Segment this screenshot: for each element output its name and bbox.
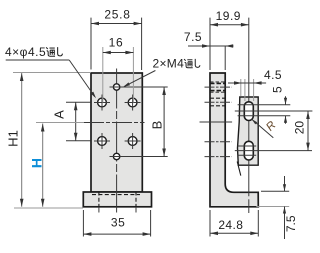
dimension H line <box>41 124 45 207</box>
svg-text:A: A <box>52 110 67 119</box>
through hole phi4.5 hole top-right <box>125 95 141 111</box>
dimension 7.5 right extension lines <box>256 191 289 206</box>
slot 2 tangent lines <box>238 146 257 155</box>
label 4xphi4.5 leader <box>6 60 96 98</box>
svg-text:16: 16 <box>109 35 124 49</box>
dimension 25.8 text <box>104 8 130 22</box>
dimension 7.5 text <box>184 30 202 44</box>
hidden M4 top hole thread lines in leg <box>210 82 225 92</box>
label 4xphi4.5 kanji tooshi <box>46 47 62 56</box>
pattern centre extension line left <box>36 122 86 124</box>
dimension H1 top extension line <box>13 72 91 74</box>
dimension 7.5 right line <box>283 176 286 239</box>
leg hole centrelines <box>205 87 232 157</box>
dimension A text <box>52 110 67 119</box>
dimension 25.8 line <box>91 22 142 26</box>
slot 2 centreline horizontal <box>235 150 312 152</box>
dimension H1 text <box>6 130 21 147</box>
hidden slot centerline left in flange <box>98 192 100 207</box>
svg-text:25.8: 25.8 <box>104 8 130 22</box>
dimension 7.5 right text <box>284 215 298 232</box>
svg-text:35: 35 <box>111 216 126 230</box>
dimension 16 line <box>103 51 134 55</box>
svg-text:4×φ4.5: 4×φ4.5 <box>5 45 46 59</box>
dimension 35 line <box>83 232 150 236</box>
dimension 19.9 line <box>210 23 249 27</box>
svg-text:2×M4: 2×M4 <box>153 57 185 71</box>
dimension 7.5 line <box>188 44 234 48</box>
side view L-profile <box>210 73 258 207</box>
dimension 7.5 extension line right <box>224 46 226 70</box>
tapped hole M4 bottom <box>110 153 168 159</box>
dimension 4.5 line <box>228 81 266 85</box>
dimension 24.8 text <box>218 218 243 232</box>
svg-text:5: 5 <box>271 86 285 93</box>
dimension 20 text <box>293 121 307 135</box>
dimension 4.5 extension lines <box>241 79 254 101</box>
dimension 16 text <box>109 35 124 49</box>
break line overshoot <box>237 162 241 176</box>
dimension 4.5 text <box>264 68 282 82</box>
dimension 35 extension lines <box>83 210 150 237</box>
svg-text:H1: H1 <box>6 130 21 147</box>
dimension 16 extension lines <box>103 47 134 103</box>
hidden M4 top hole edge lines in leg <box>210 83 225 90</box>
front view body plate <box>91 73 142 192</box>
through hole phi4.5 hole bottom-left <box>94 133 110 149</box>
dimension 24.8 extension lines <box>210 210 258 237</box>
svg-text:7.5: 7.5 <box>184 30 202 44</box>
centreline ticks below flange <box>99 208 136 213</box>
dimension 5 text <box>271 86 285 93</box>
dimension 35 text <box>111 216 126 230</box>
pattern centreline through body <box>84 122 145 124</box>
svg-text:B: B <box>150 121 165 130</box>
svg-text:24.8: 24.8 <box>218 218 243 232</box>
slot radius R leader <box>252 119 274 138</box>
hidden fillet line in flange <box>92 194 140 196</box>
svg-text:4.5: 4.5 <box>264 68 282 82</box>
front view base flange <box>83 192 151 207</box>
label 2xM4 leader <box>123 71 155 88</box>
dimension A extension lines <box>66 102 91 141</box>
body vertical centerline <box>116 69 118 207</box>
slot 1 centreline horizontal <box>235 110 313 112</box>
svg-text:19.9: 19.9 <box>216 9 241 23</box>
hidden slot centerline right in flange <box>135 192 137 207</box>
svg-text:7.5: 7.5 <box>284 215 298 232</box>
label 2xM4 kanji tooshi <box>184 59 200 68</box>
dimension 20 line <box>306 111 310 151</box>
label 4xphi4.5 text <box>5 45 46 59</box>
dimension 24.8 line <box>210 232 258 236</box>
svg-text:20: 20 <box>293 121 307 135</box>
slot 2 obround <box>244 141 253 160</box>
pattern centreline through leg <box>200 121 233 123</box>
dimension H1 line <box>20 73 24 207</box>
through hole phi4.5 hole top-left <box>94 95 110 111</box>
svg-text:H: H <box>29 158 45 168</box>
slot vertical centreline <box>248 18 250 213</box>
dimension B text <box>150 121 165 130</box>
dimension 19.9 text <box>216 9 241 23</box>
slot 1 obround <box>244 102 253 121</box>
dimension B line <box>162 87 166 157</box>
dimension 5 line <box>284 96 287 124</box>
label 2xM4 text <box>153 57 185 71</box>
through hole phi4.5 hole bottom-right <box>125 133 141 149</box>
tapped hole M4 top <box>110 84 168 90</box>
dimension H text <box>29 158 45 168</box>
dimension A line <box>74 102 78 141</box>
dimension 25.8 extension lines <box>91 18 142 70</box>
dimension H1 bottom extension line <box>14 207 83 209</box>
rotated detail plate (break line left) <box>238 97 259 165</box>
dimension 19.9 extension line left <box>209 18 211 70</box>
dimension 5 extension lines <box>238 105 291 116</box>
slot radius R text <box>264 119 278 133</box>
hidden phi4.5 upper hole edge lines in leg <box>210 98 225 106</box>
